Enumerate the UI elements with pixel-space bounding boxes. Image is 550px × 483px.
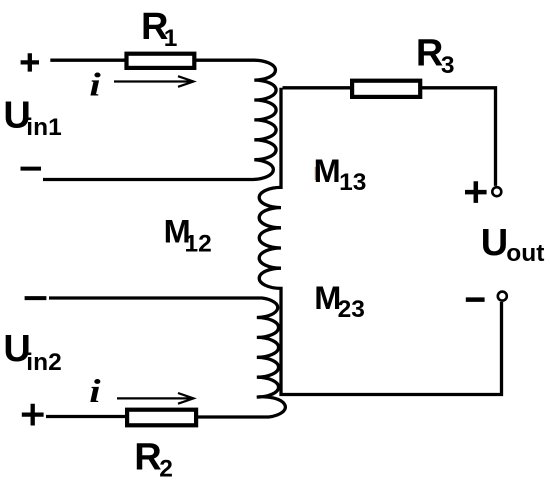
svg-text:13: 13 xyxy=(339,169,366,196)
svg-text:i: i xyxy=(89,374,101,410)
svg-text:U: U xyxy=(481,222,508,264)
svg-text:1: 1 xyxy=(164,25,178,52)
svg-text:3: 3 xyxy=(441,52,455,79)
svg-text:in2: in2 xyxy=(26,349,61,376)
svg-text:12: 12 xyxy=(185,231,212,258)
svg-text:out: out xyxy=(506,240,544,267)
svg-text:in1: in1 xyxy=(26,114,61,141)
svg-text:i: i xyxy=(89,67,101,103)
svg-text:23: 23 xyxy=(338,296,365,323)
svg-text:2: 2 xyxy=(159,456,173,483)
svg-text:M: M xyxy=(314,153,341,189)
svg-text:R: R xyxy=(416,33,443,75)
svg-text:R: R xyxy=(134,436,161,478)
